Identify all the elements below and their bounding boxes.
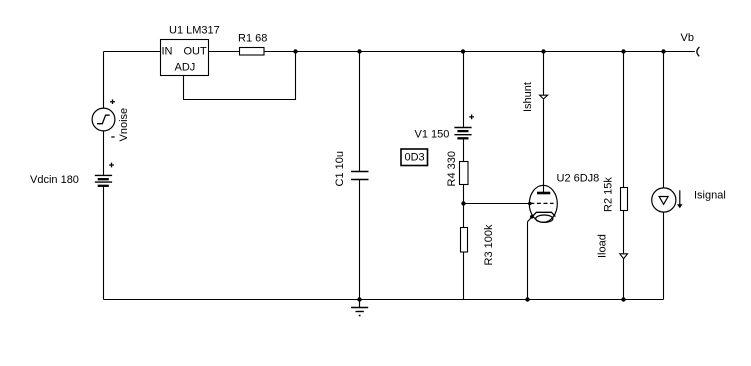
svg-text:Ishunt: Ishunt: [522, 82, 534, 112]
svg-text:U2 6DJ8: U2 6DJ8: [557, 173, 600, 185]
svg-text:R1 68: R1 68: [238, 33, 267, 45]
svg-text:Isignal: Isignal: [694, 190, 726, 202]
svg-text:0D3: 0D3: [405, 152, 425, 164]
svg-text:ADJ: ADJ: [175, 62, 196, 74]
svg-text:OUT: OUT: [184, 46, 208, 58]
svg-text:IN: IN: [162, 46, 173, 58]
svg-text:V1 150: V1 150: [415, 129, 450, 141]
svg-text:U1 LM317: U1 LM317: [169, 25, 220, 37]
svg-text:R4 330: R4 330: [446, 151, 458, 186]
svg-text:Vnoise: Vnoise: [118, 108, 130, 142]
svg-text:Vdcin 180: Vdcin 180: [30, 174, 79, 186]
svg-text:C1 10u: C1 10u: [334, 151, 346, 186]
svg-text:R2 15k: R2 15k: [603, 177, 615, 212]
svg-text:R3 100k: R3 100k: [483, 224, 495, 265]
svg-text:Vb: Vb: [681, 32, 694, 44]
svg-text:Iload: Iload: [597, 234, 609, 258]
